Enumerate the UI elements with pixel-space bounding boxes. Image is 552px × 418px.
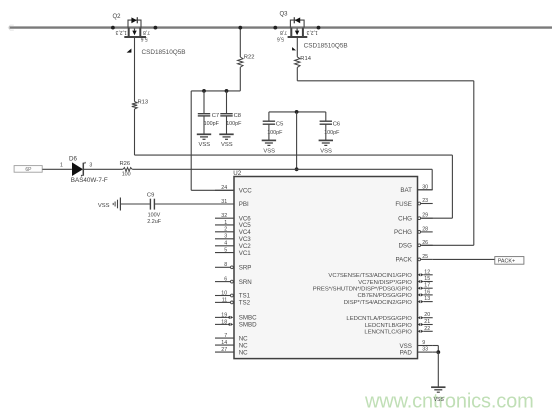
pin 18 SMBD — [215, 319, 257, 328]
svg-text:VSS: VSS — [263, 149, 275, 155]
pin 16 CB7EN/PDSG/GPIO — [358, 289, 433, 299]
op-amp U2 (battery monitor IC) body — [234, 177, 418, 359]
svg-text:5: 5 — [224, 248, 227, 254]
wire CHG vertical — [451, 155, 453, 218]
svg-text:Q3: Q3 — [280, 12, 289, 18]
pin 26 DSG — [398, 240, 432, 250]
svg-text:100pF: 100pF — [226, 121, 242, 127]
svg-text:33: 33 — [422, 347, 428, 353]
svg-text:PBI: PBI — [239, 201, 249, 208]
svg-text:C8: C8 — [234, 113, 241, 119]
wire PACK+ top rail — [10, 26, 552, 28]
transistor Q3 — [288, 17, 308, 37]
svg-text:VSS: VSS — [221, 142, 233, 148]
svg-text:NC: NC — [239, 349, 248, 356]
svg-text:15: 15 — [424, 276, 430, 282]
svg-text:FUSE: FUSE — [395, 201, 412, 208]
svg-text:12: 12 — [424, 269, 430, 275]
ground VSS (PAD) — [431, 386, 445, 388]
wire R22 bottom — [239, 67, 241, 91]
wire C7 stem — [203, 91, 205, 114]
ground VSS C6 — [319, 139, 333, 141]
svg-text:30: 30 — [422, 184, 428, 190]
capacitor C7 — [198, 113, 210, 115]
svg-text:R14: R14 — [300, 56, 311, 62]
connector 6P — [14, 166, 42, 173]
junction Q3 drain — [273, 26, 277, 30]
svg-text:100V: 100V — [148, 212, 161, 218]
svg-text:2.2uF: 2.2uF — [147, 219, 161, 225]
svg-text:22: 22 — [424, 326, 430, 332]
svg-text:100pF: 100pF — [324, 130, 340, 136]
svg-text:1: 1 — [224, 220, 227, 226]
svg-text:6P: 6P — [25, 167, 32, 173]
pin 23 FUSE — [395, 198, 432, 208]
svg-text:14: 14 — [221, 340, 227, 346]
resistor R22 — [238, 57, 243, 67]
svg-text:SRN: SRN — [239, 279, 252, 286]
wire C7 to ground — [203, 116, 205, 134]
Q2 gate marker — [127, 49, 132, 53]
svg-text:31: 31 — [221, 199, 227, 205]
svg-text:6: 6 — [224, 277, 227, 283]
pin 28 PCHG — [394, 226, 433, 236]
svg-text:19: 19 — [221, 312, 227, 318]
capacitor C6 — [320, 120, 332, 122]
svg-text:11: 11 — [222, 297, 228, 303]
svg-text:PRES*/SHUTDN*/DISP*/PDSG/GPIO: PRES*/SHUTDN*/DISP*/PDSG/GPIO — [313, 287, 413, 293]
junction BAT bypass — [295, 110, 299, 114]
svg-text:C9: C9 — [147, 192, 154, 198]
svg-text:27: 27 — [221, 347, 227, 353]
svg-text:7,8: 7,8 — [280, 29, 287, 35]
junction VSS/PAD — [436, 350, 440, 354]
svg-text:BAT: BAT — [400, 187, 412, 194]
wire C6 stem — [325, 112, 327, 121]
pin 19 SMBC — [215, 312, 257, 321]
svg-text:D6: D6 — [69, 155, 77, 162]
pin 6 SRN — [215, 277, 252, 286]
resistor R13 — [132, 102, 137, 110]
pin 24 VCC — [215, 185, 252, 194]
svg-text:PAD: PAD — [400, 349, 413, 356]
pin 22 LENCNTLC/GPIO — [364, 326, 432, 336]
svg-text:3: 3 — [89, 163, 92, 169]
svg-text:9: 9 — [422, 340, 425, 346]
svg-text:C5: C5 — [276, 121, 283, 127]
pin 1 VC5 — [215, 220, 251, 229]
off-sheet connector tip — [8, 25, 14, 30]
svg-text:29: 29 — [422, 213, 428, 219]
power VSS (PBI) — [113, 198, 120, 211]
svg-text:C7: C7 — [212, 113, 219, 119]
wire rail to R22 — [239, 28, 241, 57]
svg-text:LEDCNTLB/GPIO: LEDCNTLB/GPIO — [365, 323, 413, 329]
wire to VCC pin — [191, 189, 234, 191]
svg-text:7,8: 7,8 — [143, 29, 150, 35]
svg-text:CSD18510Q5B: CSD18510Q5B — [304, 42, 348, 49]
wire VSS pin right — [433, 345, 439, 347]
wire PAD to ground — [437, 352, 439, 387]
pin 32 VC6 — [215, 213, 251, 222]
svg-text:VC3: VC3 — [239, 236, 252, 243]
pin 4 VC2 — [215, 241, 251, 250]
resistor R14 — [295, 57, 300, 68]
svg-text:CB7EN/PDSG/GPIO: CB7EN/PDSG/GPIO — [358, 293, 413, 299]
pin 12 VC7SENSE/TS3/ADCIN1/GPIO — [328, 269, 432, 279]
wire R13 to CHG run — [134, 109, 136, 155]
svg-text:DISP*/TS4/ADCIN2/GPIO: DISP*/TS4/ADCIN2/GPIO — [344, 300, 413, 306]
svg-text:7: 7 — [224, 333, 227, 339]
svg-text:2: 2 — [224, 227, 227, 233]
wire Q3 gate down — [296, 37, 298, 57]
svg-text:PACK+: PACK+ — [498, 259, 515, 265]
svg-text:32: 32 — [221, 213, 227, 219]
svg-text:8: 8 — [224, 262, 227, 268]
wire VCC drop — [190, 91, 192, 190]
wire C5/C6 rail — [269, 111, 326, 113]
svg-text:SRP: SRP — [239, 265, 252, 272]
pin 2 VC4 — [215, 227, 251, 236]
capacitor C8 — [220, 113, 232, 115]
svg-text:17: 17 — [424, 283, 430, 289]
pin 17 PRES*/SHUTDN*/DISP*/PDSG/GPIO — [313, 283, 433, 293]
wire PAD right — [433, 351, 439, 353]
junction Q2 source — [111, 26, 115, 30]
wire BAT line — [132, 168, 432, 170]
svg-text:VC7EN/DISP*/GPIO: VC7EN/DISP*/GPIO — [358, 280, 412, 286]
svg-text:21: 21 — [424, 319, 430, 325]
svg-text:25: 25 — [422, 254, 428, 260]
svg-text:1,2,3: 1,2,3 — [115, 29, 126, 35]
junction Q3 source — [317, 26, 321, 30]
diode D6 — [72, 162, 83, 176]
svg-text:PACK: PACK — [396, 257, 413, 264]
wire CHG to pin 29 — [421, 217, 452, 219]
svg-text:24: 24 — [221, 185, 227, 191]
pin 27 NC — [215, 347, 248, 356]
svg-text:VC1: VC1 — [239, 250, 252, 257]
pin 25 PACK — [396, 254, 433, 264]
pin 3 VC3 — [215, 234, 251, 243]
wire R14 bottom — [296, 67, 298, 80]
wire CHG horizontal — [135, 154, 453, 156]
svg-text:Q2: Q2 — [113, 14, 122, 20]
pin 10 TS1 — [215, 290, 251, 299]
svg-text:100pF: 100pF — [267, 130, 283, 136]
junction C7 — [202, 89, 206, 93]
svg-text:100pF: 100pF — [204, 121, 220, 127]
svg-text:SMBC: SMBC — [239, 315, 257, 322]
svg-text:DSG: DSG — [398, 243, 412, 250]
svg-text:28: 28 — [422, 226, 428, 232]
pin 21 LEDCNTLB/GPIO — [365, 319, 433, 329]
svg-text:SMBD: SMBD — [239, 322, 257, 329]
wire C5 stem — [268, 112, 270, 121]
svg-text:www.cntronics.com: www.cntronics.com — [364, 391, 534, 413]
svg-text:VCC: VCC — [239, 188, 253, 195]
svg-text:1,2,3: 1,2,3 — [306, 29, 317, 35]
svg-text:BAS40W-7-F: BAS40W-7-F — [71, 177, 108, 184]
capacitor C9 — [150, 199, 154, 210]
svg-text:NC: NC — [239, 335, 248, 342]
svg-text:VC7SENSE/TS3/ADCIN1/GPIO: VC7SENSE/TS3/ADCIN1/GPIO — [328, 273, 412, 279]
wire DSG to pin 26 — [421, 244, 473, 246]
wire DSG horizontal top — [297, 80, 474, 82]
pin 14 NC — [215, 340, 248, 349]
svg-text:U2: U2 — [233, 170, 241, 177]
capacitor C5 — [263, 120, 275, 122]
svg-text:23: 23 — [422, 198, 428, 204]
wire C6 to ground — [325, 124, 327, 140]
pin 33 PAD — [400, 347, 433, 357]
Q3 gate marker — [292, 47, 296, 50]
svg-text:R13: R13 — [138, 99, 149, 105]
wire BAT to pin 30 — [418, 189, 433, 191]
wire PACK to connector — [433, 258, 495, 260]
svg-text:1: 1 — [60, 163, 63, 169]
svg-text:3: 3 — [224, 234, 227, 240]
svg-text:VC4: VC4 — [239, 229, 252, 236]
wire 6P to D6 — [42, 168, 72, 170]
svg-text:VSS: VSS — [320, 149, 332, 155]
svg-text:VSS: VSS — [434, 397, 445, 403]
svg-text:LEDCNTLA/PDSG/GPIO: LEDCNTLA/PDSG/GPIO — [346, 316, 412, 322]
svg-text:20: 20 — [424, 312, 430, 318]
svg-text:TS2: TS2 — [239, 300, 251, 307]
svg-text:10: 10 — [221, 290, 227, 296]
junction Q2 drain — [154, 26, 158, 30]
wire BAT corner down — [431, 169, 433, 190]
pin 5 VC1 — [215, 248, 251, 257]
svg-text:R22: R22 — [244, 55, 255, 61]
wire C8 stem — [226, 91, 228, 114]
svg-text:18: 18 — [221, 319, 227, 325]
resistor R26 — [123, 168, 132, 172]
svg-text:26: 26 — [422, 240, 428, 246]
wire C7/C8 rail — [191, 90, 240, 92]
wire C5 to ground — [268, 124, 270, 140]
wire C9 to PBI pin — [154, 203, 234, 205]
ground VSS C7 — [197, 133, 211, 135]
pin 8 SRP — [215, 262, 251, 271]
svg-text:16: 16 — [424, 289, 430, 295]
svg-text:CSD18510Q5B: CSD18510Q5B — [142, 49, 186, 56]
svg-text:VSS: VSS — [198, 142, 210, 148]
ground VSS C5 — [262, 139, 276, 141]
ground VSS C8 — [219, 133, 233, 135]
pin 15 VC7EN/DISP*/GPIO — [358, 276, 432, 286]
svg-text:100: 100 — [122, 172, 131, 178]
svg-text:VSS: VSS — [98, 203, 110, 209]
pin 13 DISP*/TS4/ADCIN2/GPIO — [344, 296, 433, 306]
connector PACK+ — [495, 257, 524, 265]
pin 30 BAT — [400, 184, 432, 194]
pin 9 VSS — [400, 340, 433, 350]
wire Q2 gate down — [134, 37, 136, 102]
junction BAT line — [295, 167, 299, 171]
junction R22 top — [238, 26, 242, 30]
pin 29 CHG — [398, 213, 433, 223]
pin 20 LEDCNTLA/PDSG/GPIO — [346, 312, 432, 322]
pin 7 NC — [215, 333, 248, 342]
svg-text:R26: R26 — [120, 161, 131, 167]
svg-text:5,6: 5,6 — [141, 35, 148, 41]
svg-text:13: 13 — [424, 296, 430, 302]
wire VSS down — [437, 346, 439, 353]
junction C8 — [225, 89, 229, 93]
wire C8 to ground — [226, 116, 228, 134]
svg-text:PCHG: PCHG — [394, 229, 412, 236]
svg-text:CHG: CHG — [398, 216, 412, 223]
svg-text:C6: C6 — [333, 121, 340, 127]
svg-text:NC: NC — [239, 342, 248, 349]
wire DSG vertical — [473, 81, 475, 246]
svg-text:LENCNTLC/GPIO: LENCNTLC/GPIO — [364, 330, 412, 336]
pin 11 TS2 — [215, 297, 251, 306]
transistor Q2 — [124, 17, 146, 37]
wire VSS to C9 — [120, 203, 149, 205]
wire BAT drop — [296, 112, 298, 169]
svg-text:4: 4 — [224, 241, 227, 247]
pin 31 PBI — [215, 199, 249, 208]
svg-text:5,6: 5,6 — [277, 35, 284, 41]
wire D6 to R26 — [83, 168, 123, 170]
